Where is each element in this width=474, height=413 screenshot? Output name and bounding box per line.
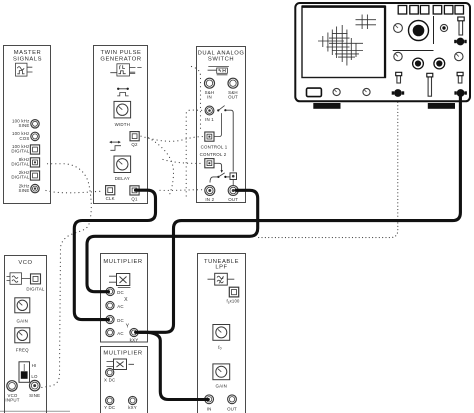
dotted wire 8kHz DIGITAL swoop to VCO SINE bbox=[42, 164, 92, 388]
dotted patch leads bbox=[42, 67, 398, 388]
svg-text:SINE: SINE bbox=[18, 123, 29, 128]
connector CONTROL 1 bbox=[205, 132, 214, 141]
connector X AC bbox=[106, 301, 114, 309]
scope top button row bbox=[398, 6, 463, 15]
svg-text:Q2: Q2 bbox=[131, 142, 138, 147]
connector CONTROL 2 bbox=[205, 159, 214, 168]
svg-text:DC: DC bbox=[117, 290, 124, 295]
svg-text:IN: IN bbox=[207, 95, 212, 100]
icon vco bbox=[7, 273, 31, 285]
connector Y DC bbox=[106, 315, 114, 323]
connector CLK bbox=[106, 186, 115, 195]
svg-text:TWIN PULSE: TWIN PULSE bbox=[101, 50, 142, 56]
svg-text:X DC: X DC bbox=[104, 378, 115, 383]
dotted wire vertical mid gap bbox=[149, 138, 174, 196]
connector LPF IN bbox=[205, 395, 214, 404]
svg-text:f0: f0 bbox=[218, 345, 222, 351]
svg-text:MULTIPLIER: MULTIPLIER bbox=[103, 351, 142, 357]
symbol delay bbox=[109, 141, 121, 151]
dotted wire Q2 to CONTROL 1 bbox=[141, 136, 203, 141]
svg-text:SINE: SINE bbox=[29, 393, 40, 398]
connector Q2 bbox=[130, 132, 139, 141]
connector X DC bbox=[106, 287, 114, 295]
svg-text:Y DC: Y DC bbox=[104, 405, 115, 410]
scope feet bbox=[313, 103, 340, 109]
module MULTIPLIER (lower) bbox=[101, 347, 148, 413]
wire kXY junction to LPF IN bbox=[140, 332, 208, 399]
svg-text:MASTER: MASTER bbox=[14, 50, 41, 56]
svg-text:DIGITAL: DIGITAL bbox=[11, 148, 30, 153]
scope knob volts/div A bbox=[413, 58, 424, 69]
connector kXY out bbox=[130, 328, 138, 336]
scope knob small 1 bbox=[333, 88, 340, 95]
svg-text:DELAY: DELAY bbox=[115, 176, 130, 181]
svg-text:FREQ: FREQ bbox=[16, 348, 29, 353]
module MASTER SIGNALS bbox=[4, 46, 51, 204]
scope ext connector (black) bbox=[454, 38, 466, 46]
svg-text:MULTIPLIER: MULTIPLIER bbox=[103, 259, 142, 265]
icon sample hold bbox=[208, 66, 229, 74]
svg-text:AC: AC bbox=[117, 304, 124, 309]
connector 2kHz DIGITAL bbox=[30, 171, 39, 180]
scope power button bbox=[307, 88, 322, 97]
svg-text:SWITCH: SWITCH bbox=[208, 57, 234, 63]
svg-text:WIDTH: WIDTH bbox=[115, 122, 130, 127]
connector IN 2 bbox=[205, 186, 215, 196]
svg-text:IN: IN bbox=[207, 407, 212, 412]
icon multiplier minus bbox=[107, 359, 135, 370]
svg-text:GAIN: GAIN bbox=[17, 318, 29, 323]
svg-text:SINE: SINE bbox=[18, 188, 29, 193]
scope trace hatch sketch bbox=[318, 15, 376, 66]
icon lpf bbox=[208, 273, 235, 285]
connector S&H IN bbox=[205, 78, 215, 88]
connector IN 1 bbox=[205, 106, 214, 115]
switch 2 control arrow bbox=[210, 163, 230, 182]
dotted wire scope CH2 to OUT line bbox=[258, 99, 398, 238]
icon multiplier bbox=[109, 274, 130, 288]
connector internal box bbox=[230, 173, 237, 180]
connector 100kHz SINE bbox=[31, 120, 39, 128]
svg-text:DIGITAL: DIGITAL bbox=[26, 286, 45, 291]
svg-text:GENERATOR: GENERATOR bbox=[100, 57, 141, 63]
wire scope CH1 to kXY bbox=[136, 95, 461, 332]
switch 1 bbox=[217, 106, 233, 172]
dotted wire 2kHz SINE to CLK bbox=[46, 191, 101, 193]
connector VCO DIGITAL bbox=[31, 274, 41, 284]
scope knob small 2 bbox=[363, 88, 370, 95]
symbol pulse width arrows bbox=[117, 88, 129, 96]
connector fs x100 bbox=[229, 287, 238, 297]
svg-text:Q1: Q1 bbox=[131, 197, 138, 202]
connector OUT bbox=[228, 186, 238, 196]
module TWIN PULSE GENERATOR bbox=[94, 46, 148, 204]
svg-text:OUT: OUT bbox=[228, 197, 238, 202]
svg-text:DIGITAL: DIGITAL bbox=[11, 175, 30, 180]
svg-text:X: X bbox=[124, 297, 128, 303]
connector LPF OUT bbox=[228, 395, 237, 404]
scope CH1 input connector (black) bbox=[454, 89, 467, 97]
connector VCO INPUT bbox=[7, 381, 17, 391]
dotted wire to CONTROL 2 bbox=[163, 160, 203, 164]
connector 8kHz DIGITAL bbox=[30, 158, 39, 167]
svg-text:AC: AC bbox=[117, 331, 124, 336]
svg-text:COS: COS bbox=[19, 136, 29, 141]
connector Y AC bbox=[106, 328, 114, 336]
oscilloscope bbox=[295, 3, 470, 109]
svg-text:VCO: VCO bbox=[18, 260, 32, 266]
svg-text:GAIN: GAIN bbox=[216, 384, 228, 389]
svg-text:CONTROL 2: CONTROL 2 bbox=[200, 152, 227, 157]
connector 2kHz SINE bbox=[31, 184, 39, 192]
scope trim pot left bbox=[396, 72, 402, 83]
connector Q1 bbox=[130, 186, 139, 195]
svg-text:fsx100: fsx100 bbox=[226, 299, 240, 305]
scope divider vertical bbox=[433, 16, 435, 44]
module TUNEABLE LPF bbox=[198, 254, 246, 413]
scope case bbox=[295, 3, 470, 101]
connector VCO SINE bbox=[30, 380, 40, 390]
wire Q1 to MULTIPLIER Y DC bbox=[74, 190, 155, 319]
wire DAS OUT to MULTIPLIER X DC bbox=[87, 190, 258, 291]
scope small knob row2 right bbox=[455, 52, 463, 60]
svg-text:kXY: kXY bbox=[130, 338, 139, 343]
scope knob volts/div B bbox=[434, 58, 445, 69]
dotted wire into CONTROL 1 from top bbox=[192, 67, 201, 131]
scope small knob row2 left bbox=[394, 52, 402, 60]
page scan artifact line bottom left bbox=[0, 410, 70, 412]
icon twin pulse bbox=[110, 64, 141, 76]
module VCO bbox=[5, 256, 47, 413]
svg-text:DC: DC bbox=[117, 318, 124, 323]
svg-text:LPF: LPF bbox=[215, 265, 227, 271]
svg-text:IN 1: IN 1 bbox=[205, 117, 214, 122]
scope divider horizontal bbox=[393, 50, 434, 52]
svg-text:DIGITAL: DIGITAL bbox=[11, 161, 30, 166]
switch HI/LO bbox=[19, 362, 30, 383]
connector 100kHz DIGITAL bbox=[30, 145, 39, 154]
svg-text:INPUT: INPUT bbox=[5, 398, 19, 403]
knob LPF GAIN bbox=[213, 364, 230, 380]
icon master signals bbox=[16, 63, 33, 76]
connector X DC (lower) bbox=[106, 368, 114, 376]
svg-text:IN 2: IN 2 bbox=[205, 197, 214, 202]
svg-text:OUT: OUT bbox=[228, 95, 238, 100]
scope small knob focus bbox=[394, 24, 403, 33]
svg-text:Y: Y bbox=[126, 324, 130, 330]
svg-text:kXY: kXY bbox=[128, 405, 137, 410]
svg-text:SIGNALS: SIGNALS bbox=[13, 57, 42, 63]
scope screen bbox=[302, 6, 385, 77]
scope trim pot top right bbox=[458, 17, 464, 35]
scope small knob w dot bbox=[440, 24, 447, 31]
module MULTIPLIER (upper) bbox=[101, 254, 148, 343]
knob f0 bbox=[213, 325, 230, 341]
connector kXY (lower) bbox=[129, 396, 137, 404]
scope big knob timebase bbox=[409, 21, 429, 41]
svg-text:CLK: CLK bbox=[106, 196, 115, 201]
knob VCO GAIN bbox=[15, 298, 30, 313]
connector Y DC (lower) bbox=[106, 396, 114, 404]
knob WIDTH bbox=[114, 101, 131, 118]
knob VCO FREQ bbox=[15, 328, 30, 343]
scope trim pot right bbox=[457, 72, 463, 83]
module DUAL ANALOG SWITCH bbox=[197, 47, 246, 203]
scope trim pot bottom center bbox=[427, 73, 433, 96]
svg-text:OUT: OUT bbox=[227, 407, 237, 412]
dotted wire vertical to IN 1 bbox=[186, 110, 204, 196]
dotted wire to IN 2 bbox=[160, 189, 203, 192]
connector S&H OUT bbox=[228, 78, 238, 88]
knob DELAY bbox=[114, 156, 131, 173]
scope CH2 input connector (black) bbox=[392, 89, 404, 97]
svg-text:CONTROL 1: CONTROL 1 bbox=[201, 144, 228, 149]
connector 100kHz COS bbox=[31, 132, 39, 140]
svg-text:HI: HI bbox=[32, 363, 37, 368]
svg-text:LO: LO bbox=[31, 374, 38, 379]
